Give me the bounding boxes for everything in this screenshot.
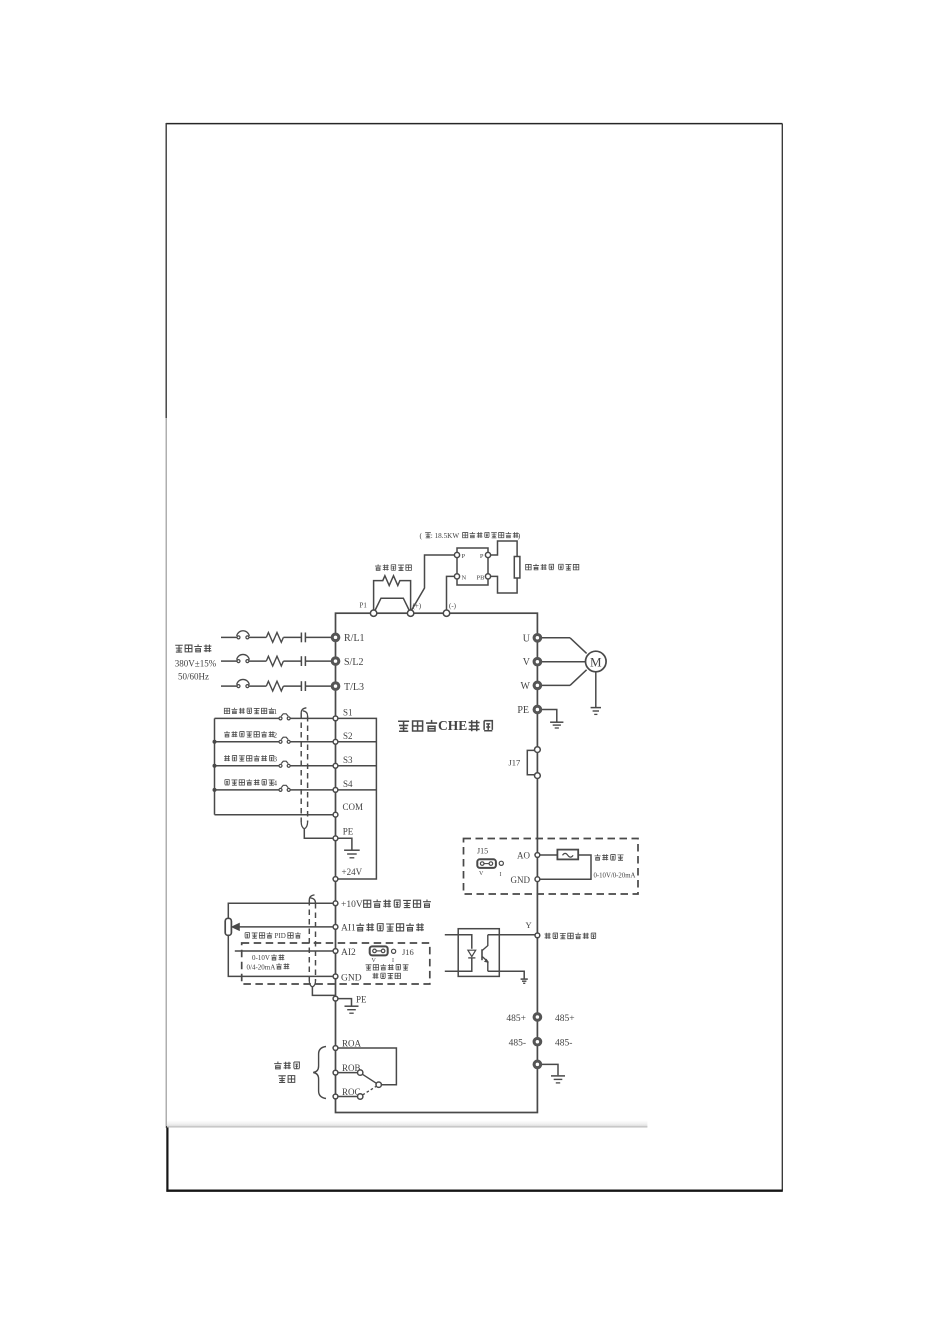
svg-text:M: M — [590, 654, 602, 669]
terminal AI1 — [333, 923, 424, 934]
svg-text:P1: P1 — [360, 602, 368, 610]
svg-text:W: W — [521, 681, 531, 692]
inverter U1 main box 变频器CHE系列 — [336, 613, 538, 1112]
wire AI1 with wiper arrow — [232, 923, 333, 930]
svg-text:PE: PE — [343, 827, 354, 837]
label 三相电源 380V±15% 50/60Hz — [175, 644, 217, 681]
terminal PE (control) — [333, 827, 354, 841]
svg-text:AI2: AI2 — [341, 948, 356, 958]
shielded cable (inputs) — [301, 708, 307, 829]
svg-text:3: 3 — [274, 755, 278, 763]
svg-text:S4: S4 — [343, 779, 353, 789]
terminal COM — [333, 802, 363, 817]
wire AI2 stub — [235, 950, 333, 952]
svg-text:N: N — [462, 575, 467, 582]
wire phase S/L2 with breaker, fuse, contact — [221, 654, 331, 666]
terminal 485+ — [506, 1013, 574, 1024]
svg-text:J15: J15 — [477, 847, 488, 856]
motor M — [586, 651, 607, 672]
svg-text:CHE: CHE — [438, 718, 467, 733]
node P1 — [360, 602, 377, 617]
node (-) — [443, 602, 456, 616]
wire V to motor — [542, 661, 586, 663]
svg-text:485+: 485+ — [555, 1014, 575, 1024]
svg-text:PE: PE — [517, 705, 529, 716]
terminal PE (analog) — [333, 995, 367, 1005]
label 0-10V输入 — [252, 954, 284, 962]
label 频率设定 PID设定 — [245, 932, 301, 940]
wire AO to meter — [540, 854, 557, 856]
wire internal bus S1..+24V — [338, 718, 376, 879]
svg-text:): ) — [518, 531, 521, 540]
svg-text:0/4-20mA: 0/4-20mA — [247, 963, 276, 971]
terminal U — [523, 633, 542, 644]
svg-text:V: V — [523, 657, 531, 668]
svg-text:P: P — [462, 553, 466, 560]
jumper link P1 to (+) — [375, 598, 410, 611]
note label: (注:18.5KW以上外接制动单元) — [420, 531, 521, 540]
wire PE to ground — [338, 838, 352, 849]
svg-text:GND: GND — [341, 973, 362, 983]
wire common left bus for inputs — [214, 718, 216, 814]
terminal AI2 — [333, 948, 356, 958]
terminal S4 — [333, 779, 353, 792]
wire input row to bus — [338, 789, 376, 791]
shielded cable (analog) — [309, 895, 315, 987]
svg-text:485-: 485- — [509, 1039, 526, 1049]
ground (control PE) — [344, 849, 360, 851]
terminal ROC — [333, 1087, 360, 1099]
svg-text:S3: S3 — [343, 755, 353, 765]
junction dot input S3 — [213, 764, 217, 768]
ground (analog PE) — [345, 1005, 359, 1007]
label 跳线选择 — [373, 973, 401, 979]
terminal V — [523, 657, 542, 668]
svg-text:I: I — [392, 958, 394, 964]
dashed box: analog output section — [464, 839, 639, 895]
svg-text:I: I — [500, 872, 502, 878]
svg-text:U: U — [523, 633, 531, 644]
label 模拟输出 — [595, 854, 624, 860]
switch input S2 多功能输入端子2 — [215, 731, 333, 743]
wire U to motor — [542, 637, 570, 639]
terminal R/L1 — [331, 633, 364, 644]
switch input S1 多功能输入端子1 — [215, 708, 333, 720]
svg-text:ROA: ROA — [342, 1038, 362, 1048]
svg-text:485-: 485- — [555, 1039, 572, 1049]
wire braking unit P(left) to (+) — [411, 555, 454, 611]
wire meter to GND — [540, 855, 591, 879]
svg-text:PE: PE — [356, 995, 367, 1005]
wire phase R/L1 with breaker, fuse, contact — [221, 631, 331, 643]
terminal T/L3 — [331, 682, 364, 693]
svg-text:S2: S2 — [343, 731, 353, 741]
terminal AO — [517, 851, 540, 861]
wire analog shield drain to PE — [312, 987, 335, 995]
wire PE to ground — [542, 710, 557, 722]
wire optocoupler emitter to ground — [488, 971, 524, 978]
terminal ROA — [333, 1038, 361, 1050]
svg-text:(-): (-) — [449, 602, 457, 610]
svg-text:S/L2: S/L2 — [344, 657, 363, 668]
wire motor to ground — [595, 672, 597, 707]
ground (motor) — [591, 707, 601, 709]
svg-text:50/60Hz: 50/60Hz — [178, 672, 209, 682]
relay contacts K1 — [338, 1048, 396, 1099]
svg-text:AO: AO — [517, 851, 530, 861]
brace 继电器输出 — [274, 1047, 326, 1099]
pin I of J15 — [499, 861, 503, 878]
svg-text:Y: Y — [526, 920, 532, 930]
svg-text:COM: COM — [343, 802, 364, 812]
pin I of J16 — [392, 949, 396, 964]
optocoupler U2 — [445, 929, 500, 977]
jumper J16 — [370, 946, 388, 963]
terminal S1 — [333, 708, 352, 721]
svg-text:485+: 485+ — [506, 1014, 526, 1024]
wire optocoupler to Y — [488, 934, 535, 936]
wire shield drain to PE — [304, 829, 333, 839]
label 制动单元 需外配 — [526, 564, 579, 570]
svg-text:R/L1: R/L1 — [344, 633, 365, 644]
junction dot input S4 — [213, 788, 217, 792]
terminal Y — [526, 920, 540, 938]
wire phase T/L3 with breaker, fuse, contact — [221, 679, 331, 691]
svg-text:AI1: AI1 — [341, 924, 356, 934]
node (+) — [407, 602, 421, 616]
svg-text:J17: J17 — [509, 758, 521, 768]
svg-text:(: ( — [420, 531, 423, 540]
svg-text:V: V — [372, 958, 377, 964]
terminal S/L2 — [331, 657, 363, 668]
svg-text:J16: J16 — [402, 947, 414, 957]
terminal PE (output) — [517, 705, 541, 716]
switch input S4 多功能输入端子4 — [215, 779, 333, 791]
svg-text:+24V: +24V — [342, 867, 363, 877]
svg-text:2: 2 — [274, 731, 278, 739]
jumper J15 — [477, 847, 496, 878]
meter (analog indicator) — [557, 850, 578, 860]
terminal +24V — [333, 867, 362, 882]
svg-text:GND: GND — [511, 875, 531, 885]
junction dot input S2 — [213, 740, 217, 744]
ground (PE output) — [550, 721, 563, 723]
resistor: braking resistor — [491, 541, 520, 593]
wire PE to ground — [338, 999, 351, 1006]
svg-text:380V±15%: 380V±15% — [175, 659, 217, 669]
svg-text:P: P — [480, 553, 484, 560]
svg-text:: 18.5KW: : 18.5KW — [431, 532, 460, 540]
potentiometer 频率设定 — [225, 903, 333, 976]
terminal 485- — [509, 1037, 573, 1048]
terminal S3 — [333, 755, 353, 768]
svg-text:S1: S1 — [343, 708, 353, 718]
terminal GND (analog) — [511, 875, 540, 885]
inductor: DC reactor 直流电抗器 with leads — [374, 564, 412, 609]
braking unit box with pins P N P PB — [454, 548, 490, 585]
terminal ROB — [333, 1063, 360, 1075]
terminal shield (485 ground) — [533, 1060, 565, 1083]
jumper J17 — [509, 747, 541, 779]
svg-text:0-10V: 0-10V — [252, 954, 270, 962]
ground (Y output) — [521, 978, 528, 980]
label 电压电流输入 — [366, 964, 409, 970]
svg-text:1: 1 — [274, 708, 278, 716]
wire braking unit N(left) to (-) — [447, 576, 455, 610]
switch input S3 多功能输入端子3 — [215, 755, 333, 767]
wire to COM — [215, 814, 333, 816]
svg-text:4: 4 — [274, 779, 278, 787]
svg-text:T/L3: T/L3 — [344, 682, 364, 693]
terminal +10V — [333, 899, 431, 910]
terminal GND (analog in) — [333, 973, 362, 983]
terminal W — [521, 681, 542, 692]
wire input row to bus — [338, 765, 376, 767]
svg-text:+10V: +10V — [341, 900, 363, 910]
svg-text:V: V — [479, 871, 484, 877]
dashed box: AI2 input selection — [242, 943, 430, 984]
svg-text:0-10V/0-20mA: 0-10V/0-20mA — [594, 873, 636, 880]
svg-text:PB: PB — [477, 575, 486, 582]
svg-text:PID: PID — [275, 932, 286, 940]
terminal S2 — [333, 731, 352, 744]
label 开路集电极输出 — [545, 933, 596, 939]
wire W to motor — [542, 684, 570, 686]
label 0/4-20mA输入 — [247, 963, 290, 971]
wire input row to bus — [338, 741, 376, 743]
